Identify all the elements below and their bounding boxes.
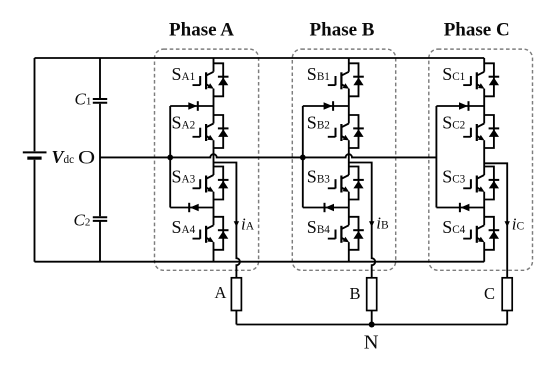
transistor SA4 (IGBT with antiparallel diode) <box>193 217 229 250</box>
transistor SA1 (IGBT with antiparallel diode) <box>193 63 229 96</box>
svg-text:SC1: SC1 <box>442 64 465 84</box>
transistor SC2 (IGBT with antiparallel diode) <box>463 115 499 148</box>
svg-text:SA4: SA4 <box>172 217 196 237</box>
transistor SB1 (IGBT with antiparallel diode) <box>328 63 364 96</box>
wire: left source branch vertical <box>34 58 36 262</box>
junction dot: O line to phase A clamp <box>167 155 173 161</box>
svg-text:Phase A: Phase A <box>169 20 234 41</box>
transistor SC4 (IGBT with antiparallel diode) <box>463 217 499 250</box>
svg-text:N: N <box>364 332 379 354</box>
battery Vdc (short plate) <box>27 157 41 160</box>
svg-text:SB1: SB1 <box>307 64 330 84</box>
wire: phase B upper clamp branch <box>303 105 349 107</box>
clamp diode DA1 <box>188 102 197 109</box>
wire: phase C output <box>484 163 507 324</box>
svg-text:SA1: SA1 <box>172 64 196 84</box>
wire: phase A leg column <box>213 58 215 262</box>
svg-text:Phase C: Phase C <box>444 20 510 41</box>
resistor load C <box>502 278 512 311</box>
wire: phase A lower clamp branch <box>170 207 213 209</box>
svg-text:iB: iB <box>376 214 389 233</box>
wire: phase C upper clamp branch <box>436 105 484 107</box>
svg-text:SA3: SA3 <box>172 167 196 187</box>
current arrow iB <box>369 221 374 227</box>
phase B dashed enclosure box <box>292 49 395 270</box>
svg-text:O: O <box>78 147 95 168</box>
clamp diode DA2 <box>190 204 199 211</box>
wire: phase C lower clamp branch <box>436 207 484 209</box>
wire: bottom DC bus (negative rail) <box>35 261 485 263</box>
phase C dashed enclosure box <box>429 49 533 270</box>
resistor load A <box>231 278 241 311</box>
wire: phase C leg column <box>483 58 485 262</box>
phase A dashed enclosure box <box>155 49 259 270</box>
svg-text:iA: iA <box>241 215 255 234</box>
junction dot: O line to phase B clamp <box>300 155 306 161</box>
svg-text:SC4: SC4 <box>442 217 465 237</box>
wire: top DC bus (positive rail) <box>35 57 485 59</box>
svg-text:SB2: SB2 <box>307 112 330 132</box>
transistor SB2 (IGBT with antiparallel diode) <box>328 115 364 148</box>
clamp diode DC2 <box>461 204 470 211</box>
transistor SA2 (IGBT with antiparallel diode) <box>193 115 229 148</box>
svg-text:SB3: SB3 <box>307 167 330 187</box>
svg-text:C1: C1 <box>75 90 92 109</box>
current arrow iA <box>234 221 239 227</box>
wire: DC-link capacitor branch vertical <box>99 58 101 262</box>
svg-text:C2: C2 <box>74 211 91 230</box>
clamp diode DB1 <box>324 102 333 109</box>
svg-text:Vdc: Vdc <box>52 147 75 167</box>
transistor SC3 (IGBT with antiparallel diode) <box>463 167 499 200</box>
transistor SC1 (IGBT with antiparallel diode) <box>463 63 499 96</box>
wire: phase A upper clamp branch <box>170 105 213 107</box>
svg-text:SC3: SC3 <box>442 167 465 187</box>
battery Vdc (long plate) <box>23 151 47 153</box>
wire: phase B leg column <box>348 58 350 262</box>
wire: phase B clamp vertical <box>302 106 304 208</box>
capacitor C2 <box>93 217 107 221</box>
svg-text:B: B <box>350 284 361 303</box>
wire: phase C clamp vertical <box>435 106 437 208</box>
svg-text:A: A <box>215 283 227 302</box>
junction dot: node N <box>369 322 375 328</box>
clamp diode DB2 <box>325 204 334 211</box>
svg-text:Phase B: Phase B <box>310 20 375 41</box>
current arrow iC <box>505 221 510 227</box>
svg-text:SA2: SA2 <box>172 112 196 132</box>
resistor load B <box>367 278 377 311</box>
wire: neutral N rail <box>236 324 507 326</box>
capacitor C1 <box>93 99 107 103</box>
wire: phase B output with hop over bottom bus <box>349 163 375 325</box>
wire: neutral O line with hops over phase A and B legs <box>100 154 436 157</box>
svg-text:SC2: SC2 <box>442 112 465 132</box>
svg-text:C: C <box>484 284 495 303</box>
wire: phase B lower clamp branch <box>303 207 349 209</box>
transistor SB4 (IGBT with antiparallel diode) <box>328 217 364 250</box>
transistor SB3 (IGBT with antiparallel diode) <box>328 167 364 200</box>
svg-text:SB4: SB4 <box>307 217 330 237</box>
clamp diode DC1 <box>459 102 468 109</box>
transistor SA3 (IGBT with antiparallel diode) <box>193 167 229 200</box>
svg-text:iC: iC <box>512 215 525 234</box>
wire: phase A clamp vertical <box>169 106 171 208</box>
wire: phase A output with hop over bottom bus <box>214 163 240 325</box>
